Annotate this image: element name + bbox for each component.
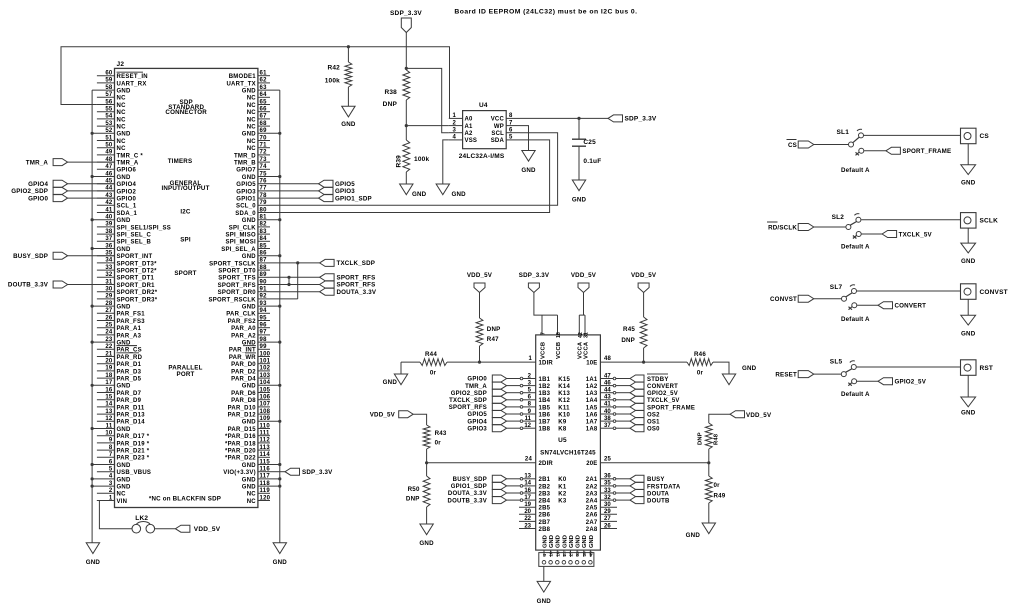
- svg-text:2B2: 2B2: [539, 484, 551, 490]
- svg-text:NC: NC: [247, 139, 257, 145]
- svg-text:1A2: 1A2: [586, 384, 598, 390]
- svg-text:OS0: OS0: [647, 427, 660, 433]
- svg-text:19: 19: [105, 366, 113, 372]
- svg-text:SCLK: SCLK: [980, 218, 999, 225]
- svg-text:68: 68: [260, 121, 268, 127]
- svg-text:SPORT_DR3*: SPORT_DR3*: [117, 297, 158, 303]
- svg-text:NC: NC: [117, 139, 127, 145]
- svg-text:SPORT_DT2*: SPORT_DT2*: [117, 269, 158, 275]
- svg-text:2A2: 2A2: [586, 484, 598, 490]
- svg-text:107: 107: [260, 402, 271, 408]
- flag SDP_3.3V on VIO row: [270, 471, 285, 473]
- svg-text:GND: GND: [242, 305, 257, 311]
- svg-text:1B2: 1B2: [539, 384, 551, 390]
- ground below R39: [400, 184, 413, 195]
- svg-text:101: 101: [260, 359, 271, 365]
- resistor R49 0r: [705, 476, 712, 503]
- junction 2DIR node: [425, 461, 428, 464]
- svg-text:1A4: 1A4: [586, 398, 598, 404]
- svg-text:NC: NC: [117, 110, 127, 116]
- svg-text:36: 36: [105, 243, 113, 249]
- svg-text:96: 96: [260, 323, 268, 329]
- J2 left label overlines: [117, 71, 144, 73]
- svg-text:GND: GND: [742, 365, 757, 372]
- svg-text:PAR_D11: PAR_D11: [117, 405, 145, 411]
- svg-text:GPIO5: GPIO5: [335, 181, 355, 188]
- svg-text:SL5: SL5: [830, 359, 843, 366]
- svg-text:7: 7: [541, 332, 547, 335]
- svg-text:VDD_5V: VDD_5V: [746, 412, 772, 419]
- svg-text:17: 17: [524, 495, 531, 501]
- wire SL2 throw B to TXCLK_5V flag: [862, 233, 883, 235]
- svg-text:R39: R39: [396, 155, 403, 168]
- ground right of R46: [722, 374, 735, 385]
- svg-text:U5: U5: [558, 437, 567, 444]
- flag TXCLK_5V: [882, 231, 897, 238]
- wire SL2 throw A to SCLK jack: [861, 219, 960, 221]
- svg-text:GND: GND: [556, 535, 562, 548]
- svg-text:100k: 100k: [325, 78, 340, 85]
- svg-text:GPIO5: GPIO5: [236, 182, 256, 188]
- svg-text:GND: GND: [242, 89, 257, 95]
- svg-text:25: 25: [105, 323, 113, 329]
- svg-text:76: 76: [260, 179, 268, 185]
- U4 left pins A0 A1 A2 VSS: [449, 117, 463, 119]
- junction node R42 top: [347, 45, 350, 48]
- svg-text:BMODE1: BMODE1: [229, 74, 257, 80]
- svg-text:53: 53: [105, 121, 113, 127]
- svg-text:DOUTA_3.3V: DOUTA_3.3V: [337, 289, 377, 296]
- svg-text:32: 32: [105, 272, 113, 278]
- svg-text:SPORT_FRAME: SPORT_FRAME: [902, 148, 951, 155]
- svg-text:SDP_3.3V: SDP_3.3V: [302, 469, 333, 476]
- svg-text:GND: GND: [117, 485, 132, 491]
- svg-text:39: 39: [582, 551, 587, 557]
- svg-text:GND: GND: [412, 191, 427, 198]
- svg-text:Default A: Default A: [841, 316, 870, 323]
- wire CONVST jack to ground: [967, 299, 969, 315]
- svg-text:RESET_IN: RESET_IN: [117, 74, 148, 80]
- svg-text:NC: NC: [117, 103, 127, 109]
- svg-text:NC: NC: [247, 492, 257, 498]
- wire U4 VCC to SDP_3.3V flag: [520, 117, 608, 119]
- flag VDD_5V at LK2: [175, 525, 190, 532]
- svg-text:GND: GND: [562, 535, 568, 548]
- svg-text:105: 105: [260, 387, 271, 393]
- svg-text:GND: GND: [961, 258, 976, 265]
- U5 2A side output flags and pins: [586, 474, 681, 533]
- svg-text:CONVST: CONVST: [770, 296, 797, 303]
- svg-text:NC: NC: [247, 125, 257, 131]
- svg-text:0r: 0r: [697, 370, 704, 377]
- wire CS jack to ground: [967, 144, 969, 165]
- svg-text:GND: GND: [242, 175, 257, 181]
- svg-text:TMR_C *: TMR_C *: [117, 153, 144, 159]
- svg-text:116: 116: [260, 467, 271, 473]
- ground below CONVST jack: [961, 315, 976, 325]
- svg-text:80: 80: [260, 207, 268, 213]
- svg-text:69: 69: [260, 128, 268, 134]
- svg-text:5: 5: [109, 467, 113, 473]
- svg-text:25: 25: [604, 457, 612, 463]
- svg-text:18: 18: [556, 332, 562, 338]
- svg-text:74: 74: [260, 164, 268, 170]
- svg-text:37: 37: [105, 236, 113, 242]
- svg-text:1B3: 1B3: [539, 391, 551, 397]
- svg-text:VCCA: VCCA: [583, 341, 589, 359]
- flag TXCLK_SDP on SPORT_TSCLK row: [270, 262, 320, 264]
- wire LK2 to VDD_5V tag: [155, 528, 176, 530]
- svg-text:SPORT_RFS: SPORT_RFS: [449, 405, 487, 411]
- svg-text:FRSTDATA: FRSTDATA: [647, 484, 681, 490]
- svg-text:75: 75: [260, 171, 268, 177]
- svg-text:SCL_0: SCL_0: [236, 204, 256, 210]
- svg-text:R49: R49: [714, 493, 726, 500]
- svg-text:Default A: Default A: [841, 391, 870, 398]
- svg-text:PAR_FS1: PAR_FS1: [117, 312, 146, 318]
- svg-text:GND: GND: [419, 540, 434, 547]
- svg-text:95: 95: [260, 315, 268, 321]
- svg-text:DOUTA: DOUTA: [647, 491, 670, 497]
- svg-text:46: 46: [105, 171, 113, 177]
- svg-text:GND: GND: [542, 535, 548, 548]
- svg-text:20: 20: [105, 359, 113, 365]
- svg-text:R45: R45: [623, 326, 635, 333]
- svg-text:RD/SCLK: RD/SCLK: [768, 224, 797, 231]
- svg-text:GND: GND: [569, 535, 575, 548]
- svg-text:0r: 0r: [714, 482, 721, 489]
- svg-text:SPORT_DR0: SPORT_DR0: [218, 290, 257, 296]
- svg-text:GPIO2_5V: GPIO2_5V: [895, 379, 927, 386]
- svg-text:92: 92: [260, 294, 268, 300]
- svg-text:GND: GND: [572, 197, 587, 204]
- svg-text:NC: NC: [117, 96, 127, 102]
- svg-text:2B5: 2B5: [539, 506, 551, 512]
- svg-text:RST: RST: [980, 365, 994, 372]
- svg-text:PAR_D0: PAR_D0: [231, 362, 256, 368]
- svg-text:SPORT_RFS: SPORT_RFS: [337, 275, 376, 282]
- flag SPORT_RFS on SPORT_RFS row: [270, 284, 320, 286]
- svg-text:82: 82: [260, 222, 268, 228]
- svg-text:97: 97: [260, 330, 268, 336]
- svg-text:CONVERT: CONVERT: [647, 384, 678, 390]
- svg-text:NC: NC: [117, 117, 127, 123]
- resistor R46 0r: [644, 361, 687, 363]
- svg-text:1B1: 1B1: [539, 377, 551, 383]
- svg-text:UART_TX: UART_TX: [226, 81, 255, 87]
- svg-text:U4: U4: [479, 102, 488, 109]
- svg-text:1: 1: [528, 356, 532, 362]
- svg-text:BUSY: BUSY: [647, 477, 665, 483]
- wire U4 SDA to J2 SDA_0: [270, 140, 550, 213]
- svg-text:13: 13: [105, 409, 113, 415]
- svg-text:TXCLK_SDP: TXCLK_SDP: [337, 260, 376, 267]
- svg-text:PAR_D15: PAR_D15: [228, 427, 257, 433]
- svg-text:14: 14: [105, 402, 113, 408]
- svg-text:51: 51: [105, 135, 113, 141]
- svg-text:1B7: 1B7: [539, 420, 551, 426]
- svg-text:GND: GND: [341, 121, 356, 128]
- flag SPORT_RFS on SPORT_TFS row: [270, 276, 320, 278]
- svg-text:1B5: 1B5: [539, 405, 551, 411]
- svg-text:13: 13: [524, 474, 531, 480]
- svg-text:GND: GND: [961, 180, 976, 187]
- svg-text:2B1: 2B1: [539, 477, 551, 483]
- svg-text:GND: GND: [242, 485, 257, 491]
- svg-text:10: 10: [549, 551, 554, 557]
- svg-text:*NC on BLACKFIN SDP: *NC on BLACKFIN SDP: [149, 496, 221, 503]
- svg-text:110: 110: [260, 423, 271, 429]
- wire SL7 throw A to CONVST jack: [857, 290, 961, 292]
- svg-text:GND: GND: [117, 89, 132, 95]
- svg-text:PAR_A0: PAR_A0: [231, 326, 256, 332]
- svg-text:K2: K2: [558, 491, 567, 497]
- resistor R39 100k: [405, 126, 407, 140]
- svg-text:TMR_B: TMR_B: [234, 161, 256, 167]
- svg-text:GND: GND: [961, 410, 976, 417]
- svg-text:85: 85: [260, 243, 268, 249]
- svg-text:SPORT_TSCLK: SPORT_TSCLK: [209, 261, 256, 267]
- svg-text:112: 112: [260, 438, 271, 444]
- svg-text:63: 63: [260, 85, 268, 91]
- wire RST jack to ground: [967, 375, 969, 397]
- svg-text:VDD_5V: VDD_5V: [631, 272, 657, 279]
- svg-text:2DIR: 2DIR: [539, 461, 554, 467]
- svg-text:SN74LVCH16T245: SN74LVCH16T245: [540, 450, 596, 457]
- svg-text:VCCB: VCCB: [556, 342, 562, 359]
- svg-text:TIMERS: TIMERS: [168, 158, 193, 165]
- wire VIN to LK2: [97, 501, 132, 529]
- svg-text:1A1: 1A1: [586, 377, 598, 383]
- svg-text:PAR_D8: PAR_D8: [231, 398, 256, 404]
- svg-text:SPORT_DR2*: SPORT_DR2*: [117, 290, 158, 296]
- svg-text:1A5: 1A5: [586, 405, 598, 411]
- J2 right pin stubs, numbers and names: [208, 71, 279, 505]
- svg-text:42: 42: [105, 200, 113, 206]
- svg-text:41: 41: [105, 207, 113, 213]
- svg-text:DOUTB_3.3V: DOUTB_3.3V: [447, 498, 487, 504]
- ground below SCLK jack: [961, 243, 976, 253]
- svg-text:67: 67: [260, 114, 268, 120]
- svg-text:66: 66: [260, 107, 268, 113]
- svg-text:Board ID EEPROM (24LC32) must: Board ID EEPROM (24LC32) must be on I2C …: [454, 9, 637, 16]
- svg-text:64: 64: [260, 92, 268, 98]
- svg-text:73: 73: [260, 157, 268, 163]
- ground below R42: [342, 106, 355, 117]
- svg-text:PAR_D14: PAR_D14: [117, 420, 146, 426]
- svg-text:2B4: 2B4: [539, 499, 551, 505]
- svg-text:GND: GND: [117, 305, 132, 311]
- svg-text:15: 15: [105, 395, 113, 401]
- svg-text:K14: K14: [558, 384, 570, 390]
- svg-text:1B6: 1B6: [539, 412, 551, 418]
- wire SL1 throw A to CS jack: [864, 134, 961, 136]
- resistor R43 0r: [423, 425, 430, 449]
- left rail ground symbol: [86, 543, 99, 554]
- svg-text:GND: GND: [589, 535, 595, 548]
- svg-text:83: 83: [260, 229, 268, 235]
- svg-text:6: 6: [109, 459, 113, 465]
- svg-text:3: 3: [452, 128, 456, 134]
- svg-text:CS: CS: [788, 142, 797, 149]
- svg-text:56: 56: [105, 99, 113, 105]
- svg-text:SPORT_RFS: SPORT_RFS: [218, 283, 256, 289]
- svg-text:INPUT/OUTPUT: INPUT/OUTPUT: [161, 185, 209, 192]
- svg-text:R47: R47: [487, 336, 499, 343]
- svg-text:SPI_MISO: SPI_MISO: [226, 233, 256, 239]
- svg-text:GND: GND: [242, 463, 257, 469]
- svg-text:PAR_CLK: PAR_CLK: [226, 312, 256, 318]
- svg-text:PAR_A2: PAR_A2: [231, 333, 256, 339]
- svg-text:23: 23: [524, 523, 531, 529]
- wire U4 SCL to J2 SCL_0: [270, 133, 558, 206]
- svg-text:106: 106: [260, 395, 271, 401]
- svg-text:PAR_D3: PAR_D3: [117, 369, 142, 375]
- J2 right label overlines: [243, 345, 256, 347]
- svg-text:VDD_5V: VDD_5V: [194, 526, 221, 533]
- U5 bottom GND bus box: [539, 553, 594, 567]
- svg-text:PAR_RD: PAR_RD: [117, 355, 143, 361]
- junction R47 to 1DIR wire: [478, 361, 481, 364]
- svg-text:21: 21: [105, 351, 113, 357]
- svg-text:6: 6: [509, 128, 513, 134]
- svg-text:SPORT_RSCLK: SPORT_RSCLK: [208, 297, 256, 303]
- svg-text:PAR_D7: PAR_D7: [117, 391, 142, 397]
- svg-text:GND: GND: [273, 559, 288, 566]
- svg-text:60: 60: [105, 71, 113, 77]
- svg-text:62: 62: [260, 78, 268, 84]
- svg-text:GND: GND: [117, 463, 132, 469]
- svg-text:TXCLK_5V: TXCLK_5V: [899, 231, 933, 238]
- svg-text:16: 16: [555, 551, 560, 557]
- flag GPIO2_5V: [878, 378, 893, 385]
- svg-text:SPORT_INT: SPORT_INT: [117, 254, 153, 260]
- svg-text:120: 120: [260, 495, 271, 501]
- svg-text:VIO(+3.3V): VIO(+3.3V): [223, 470, 256, 476]
- svg-text:GND: GND: [242, 477, 257, 483]
- svg-text:PAR_D9: PAR_D9: [117, 398, 142, 404]
- svg-text:GPIO7: GPIO7: [236, 168, 256, 174]
- svg-text:100: 100: [260, 351, 271, 357]
- svg-text:1A8: 1A8: [586, 427, 598, 433]
- svg-text:47: 47: [105, 164, 113, 170]
- svg-text:GPIO0: GPIO0: [28, 195, 48, 202]
- ground below U4 WP: [522, 151, 535, 162]
- svg-text:K13: K13: [558, 391, 570, 397]
- jack CONVST: [961, 284, 977, 300]
- svg-text:30: 30: [105, 287, 113, 293]
- svg-text:GND: GND: [242, 384, 257, 390]
- svg-text:K15: K15: [558, 377, 570, 383]
- svg-text:1: 1: [452, 113, 456, 119]
- svg-text:GPIO2_5V: GPIO2_5V: [647, 391, 678, 397]
- svg-text:GPIO0: GPIO0: [467, 377, 487, 383]
- svg-text:5: 5: [509, 135, 513, 141]
- svg-text:39: 39: [105, 222, 113, 228]
- svg-text:4: 4: [452, 135, 456, 141]
- ground below R50: [420, 524, 433, 535]
- svg-text:GND: GND: [117, 132, 132, 138]
- svg-text:1B8: 1B8: [539, 427, 551, 433]
- svg-text:J2: J2: [117, 61, 125, 68]
- svg-text:SL1: SL1: [837, 129, 850, 136]
- flag DOUTA_3.3V on SPORT_DR0 row: [270, 291, 320, 293]
- svg-text:CONVERT: CONVERT: [895, 303, 927, 310]
- svg-text:PAR_D2: PAR_D2: [231, 369, 256, 375]
- svg-text:UART_RX: UART_RX: [117, 81, 147, 87]
- svg-text:SPORT: SPORT: [174, 270, 196, 277]
- svg-text:9: 9: [109, 438, 113, 444]
- svg-text:24: 24: [525, 457, 533, 463]
- resistor R45 DNP: [640, 317, 647, 348]
- svg-text:1A7: 1A7: [586, 420, 598, 426]
- svg-text:87: 87: [260, 258, 268, 264]
- svg-text:VDD_5V: VDD_5V: [370, 412, 396, 419]
- svg-text:PAR_A3: PAR_A3: [117, 333, 142, 339]
- svg-text:GND: GND: [549, 535, 555, 548]
- svg-text:R46: R46: [694, 351, 706, 358]
- svg-text:2B6: 2B6: [539, 513, 551, 519]
- svg-text:81: 81: [260, 215, 268, 221]
- svg-text:4: 4: [109, 474, 113, 480]
- J2 left pin stubs, numbers and names: [92, 71, 171, 505]
- svg-text:GND: GND: [242, 218, 257, 224]
- svg-text:TMR_A: TMR_A: [26, 159, 49, 166]
- svg-text:GND: GND: [117, 427, 132, 433]
- svg-text:88: 88: [260, 265, 268, 271]
- svg-text:*PAR_D22: *PAR_D22: [225, 456, 256, 462]
- ground below CS jack: [961, 165, 976, 175]
- svg-text:PAR_D23 *: PAR_D23 *: [117, 456, 150, 462]
- svg-text:PAR_A1: PAR_A1: [117, 326, 142, 332]
- svg-text:DNP: DNP: [406, 496, 420, 503]
- svg-text:GPIO3: GPIO3: [335, 188, 355, 195]
- svg-text:R44: R44: [425, 351, 437, 358]
- svg-text:GPIO1_SDP: GPIO1_SDP: [451, 484, 487, 490]
- U5 1B side input flags and pins: [449, 373, 571, 432]
- IC U5 SN74LVCH16T245 body: [536, 335, 601, 550]
- svg-text:PAR_D6: PAR_D6: [231, 391, 256, 397]
- wire U5 GND bus to ground: [543, 566, 545, 581]
- svg-text:118: 118: [260, 481, 271, 487]
- svg-text:50: 50: [105, 143, 113, 149]
- tie wire SPORT_TFS to SPORT_RFS: [288, 277, 290, 284]
- wire SL5 throw A to RST jack: [857, 366, 961, 368]
- svg-text:GND: GND: [242, 420, 257, 426]
- svg-text:K1: K1: [558, 484, 567, 490]
- svg-text:PAR_FS2: PAR_FS2: [228, 319, 257, 325]
- svg-text:2B7: 2B7: [539, 520, 551, 526]
- svg-text:7: 7: [109, 452, 113, 458]
- svg-text:I2C: I2C: [180, 209, 191, 216]
- svg-text:OS2: OS2: [647, 412, 660, 418]
- svg-text:GND: GND: [117, 384, 132, 390]
- svg-text:8: 8: [109, 445, 113, 451]
- svg-text:GPIO3: GPIO3: [236, 189, 256, 195]
- svg-text:VDD_5V: VDD_5V: [467, 272, 493, 279]
- svg-text:GPIO4: GPIO4: [28, 181, 48, 188]
- svg-text:PAR_D12: PAR_D12: [228, 413, 257, 419]
- junction R38/R39 node to A1: [405, 124, 408, 127]
- svg-text:84: 84: [260, 236, 268, 242]
- svg-text:GPIO2_SDP: GPIO2_SDP: [11, 188, 48, 195]
- svg-text:C25: C25: [583, 139, 596, 146]
- junction SDP_3.3V / A2 node: [405, 67, 408, 70]
- svg-text:GPIO3: GPIO3: [467, 426, 487, 432]
- svg-text:27: 27: [569, 551, 574, 557]
- svg-text:SPI: SPI: [180, 236, 191, 243]
- svg-text:CONVST: CONVST: [980, 289, 1008, 296]
